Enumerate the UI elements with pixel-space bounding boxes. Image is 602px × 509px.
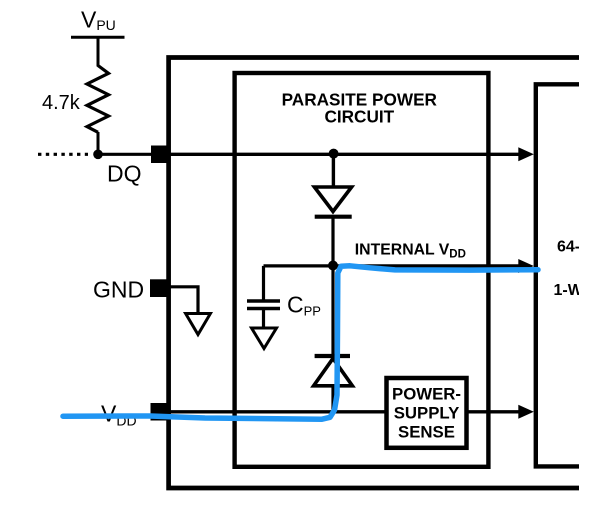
wire D1 to internal VDD node [331, 217, 334, 265]
svg-text:4.7k: 4.7k [42, 92, 81, 114]
wire sense output [467, 410, 523, 413]
arrow internal VDD into ROM block [518, 259, 534, 273]
svg-text:INTERNAL VDD: INTERNAL VDD [355, 241, 466, 260]
pin VDD [151, 403, 169, 421]
pin DQ [151, 146, 169, 164]
svg-text:CIRCUIT: CIRCUIT [324, 106, 394, 126]
svg-text:POWER-: POWER- [392, 384, 461, 403]
node DQ junction dot [93, 150, 103, 160]
junction dot DQ / D1 [329, 149, 339, 159]
svg-text:GND: GND [93, 277, 144, 303]
block power-supply sense [387, 378, 467, 448]
diode D2 [314, 358, 353, 385]
wire capacitor branch horizontal [264, 264, 334, 267]
dotted bus continuation wire [38, 153, 88, 156]
wire D2 to VDD line [331, 386, 334, 413]
pin GND [150, 279, 168, 297]
outer box DS18B20 chip boundary [169, 58, 579, 489]
diode D1 cathode bar [315, 215, 352, 219]
wire DQ node to pin [98, 153, 152, 156]
wire DQ line [168, 153, 522, 156]
blue highlight path VDD parasite power flow [63, 266, 538, 419]
arrow sense output into ROM block [518, 405, 534, 419]
svg-text:DQ: DQ [107, 161, 142, 187]
capacitor CPP bottom plate [247, 307, 280, 311]
power rail VPU [71, 36, 125, 39]
diode D1 [314, 187, 351, 212]
wire resistor to DQ node [97, 132, 100, 154]
svg-text:SENSE: SENSE [398, 422, 455, 441]
capacitor CPP top plate [247, 299, 280, 303]
wire capacitor to ground [262, 310, 265, 328]
wire GND pin to ground [168, 287, 198, 314]
arrow DQ into ROM block [518, 147, 534, 161]
wire VPU to resistor [97, 37, 100, 66]
block 64-bit ROM and 1-Wire port (cut off) [536, 84, 579, 466]
wire capacitor branch vertical [262, 266, 265, 300]
wire internal VDD node to D2 [331, 266, 334, 356]
diode D2 cathode bar [315, 354, 350, 358]
ground symbol GND pin [186, 314, 211, 335]
svg-text:SUPPLY: SUPPLY [394, 403, 460, 422]
node internal VDD junction dot [328, 261, 338, 271]
wire VDD line [168, 410, 386, 413]
diode D1 anode wire [332, 154, 335, 187]
resistor RPU 4.7k [87, 66, 109, 133]
inner box parasite power circuit [235, 73, 489, 467]
wire internal VDD line [333, 264, 522, 267]
ground symbol capacitor [252, 328, 277, 349]
